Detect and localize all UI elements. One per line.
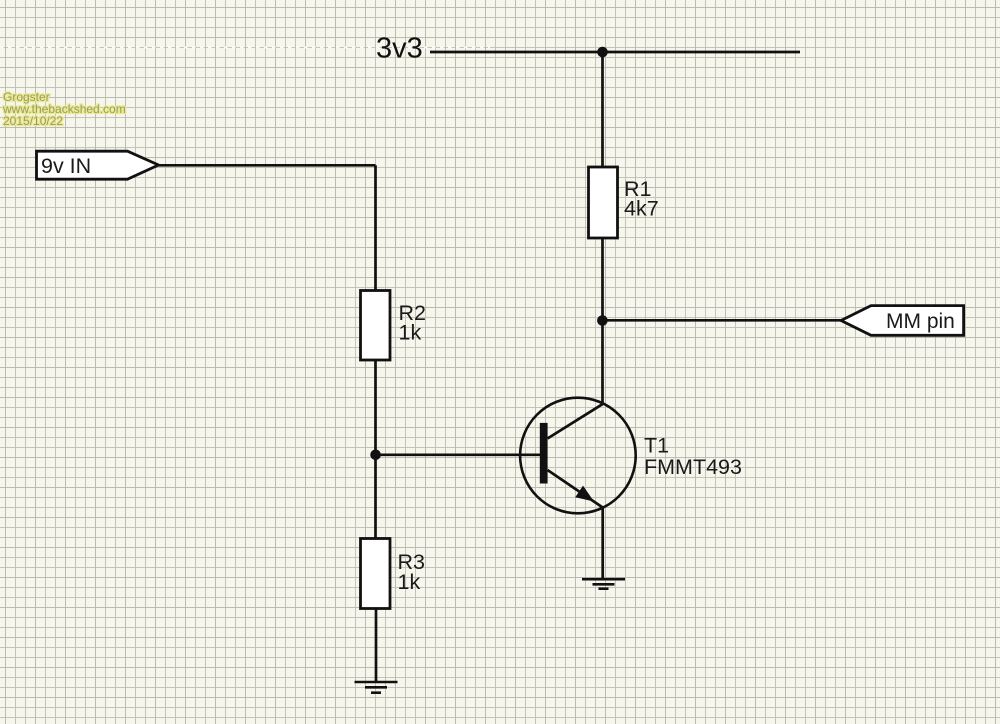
- svg-text:9v IN: 9v IN: [41, 154, 91, 178]
- wire 3v3 rail: [430, 51, 800, 54]
- label R3 1k: [398, 550, 426, 594]
- svg-text:FMMT493: FMMT493: [644, 455, 742, 479]
- svg-text:4k7: 4k7: [624, 197, 659, 221]
- svg-text:T1: T1: [644, 434, 669, 458]
- transistor T1 base bar: [540, 423, 548, 484]
- node junction dot (base node): [370, 450, 381, 461]
- ground (below R3): [355, 682, 398, 693]
- label R1 4k7: [624, 177, 659, 221]
- wire emitter to ground: [601, 506, 604, 579]
- wire base node to transistor base: [376, 453, 542, 456]
- label R2 1k: [399, 301, 426, 345]
- wire 9v IN down to R2: [374, 165, 377, 290]
- label T1 FMMT493: [644, 434, 742, 480]
- svg-text:2015/10/22: 2015/10/22: [3, 114, 63, 128]
- svg-text:1k: 1k: [398, 570, 421, 594]
- node junction dot (MM pin node): [597, 315, 608, 326]
- transistor T1 emitter arrow: [575, 486, 594, 502]
- resistor R1: [589, 167, 618, 238]
- wire R1 to collector node: [601, 238, 604, 405]
- watermark text Grogster: [2, 90, 126, 128]
- svg-text:MM pin: MM pin: [886, 310, 955, 333]
- port flag MM pin: [841, 306, 964, 336]
- resistor R3: [361, 539, 391, 609]
- wire R2 to base node: [374, 360, 377, 539]
- wire R3 to ground: [375, 609, 378, 683]
- wire node to MM pin: [603, 319, 843, 322]
- node junction dot on 3v3 rail: [597, 47, 608, 58]
- transistor T1 collector lead: [548, 404, 604, 439]
- resistor R2: [361, 291, 391, 361]
- wire 3v3 to R1: [601, 52, 604, 167]
- port flag 9v IN: [37, 151, 159, 179]
- transistor Q1 (T1) body circle: [520, 398, 636, 514]
- wire 9v IN horizontal: [159, 164, 376, 167]
- white dashed artifact line: [0, 47, 490, 49]
- svg-text:3v3: 3v3: [376, 33, 423, 65]
- transistor T1 emitter lead: [548, 470, 603, 508]
- svg-text:1k: 1k: [399, 321, 422, 345]
- ground (emitter): [582, 579, 625, 589]
